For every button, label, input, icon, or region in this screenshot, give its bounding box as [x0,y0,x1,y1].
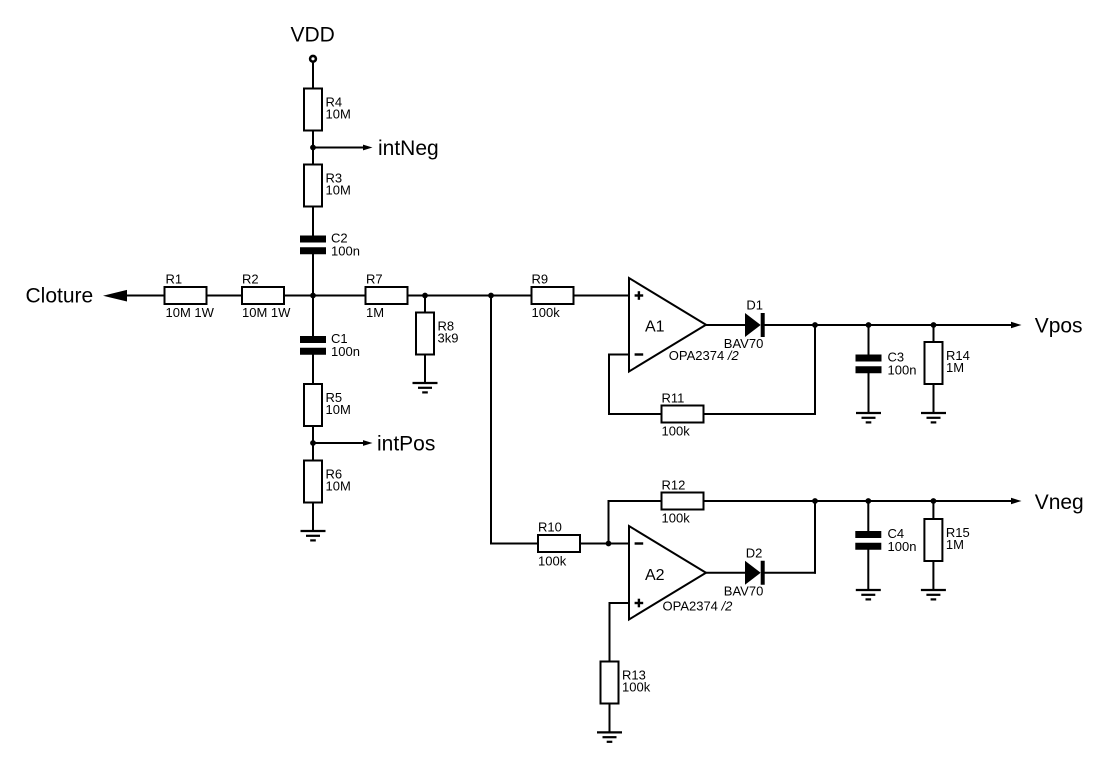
resistor R3 [304,165,351,207]
wire C1 to R5 [312,355,314,385]
svg-text:10M: 10M [326,402,351,417]
resistor R8 [416,313,458,355]
wire R10 to A2 minus [580,543,630,545]
svg-text:100k: 100k [662,510,691,525]
ground below C4 [856,590,881,599]
svg-text:10M 1W: 10M 1W [166,305,215,320]
resistor R9 [532,271,574,319]
resistor R10 [538,519,580,568]
svg-text:R12: R12 [662,477,686,492]
wire R4 to R3 [312,130,314,165]
svg-text:100n: 100n [331,344,360,359]
wire A2 plus stub [610,602,630,604]
op-amp U1 A1 [629,278,706,372]
resistor R12 [662,477,704,525]
junction node Vpos fb [812,322,818,328]
junction node R8 tap [422,293,428,299]
wire branch down to R10 [490,296,492,545]
wire C3 to ground [868,373,870,413]
wire Vneg to C4 [867,501,869,532]
wire R7 to R9 [408,295,533,297]
resistor R11 [662,390,704,438]
svg-text:10M 1W: 10M 1W [242,305,291,320]
wire R13 to ground [609,703,611,732]
svg-text:100k: 100k [622,680,651,695]
wire A2 minus up to R12 [608,500,610,545]
svg-text:BAV70: BAV70 [724,583,764,598]
svg-text:intNeg: intNeg [378,137,439,160]
svg-text:100n: 100n [888,362,917,377]
wire Vneg drop [814,501,816,574]
wire bus to C1 [312,296,314,337]
resistor R1 [165,271,215,319]
svg-text:A2: A2 [645,567,665,584]
ground below R13 [597,732,622,741]
wire VDD to R4 [312,63,314,89]
resistor R6 [304,461,351,503]
svg-text:100k: 100k [662,423,691,438]
svg-text:10M: 10M [326,107,351,122]
svg-text:R11: R11 [662,390,685,405]
wire fb to R11 [609,413,662,415]
wire Cloture to R1 [125,295,165,297]
resistor R15 [924,519,969,561]
svg-text:100n: 100n [888,539,917,554]
capacitor C1 [300,331,360,359]
wire A2 out to D2 [706,572,746,574]
ground below C3 [856,413,881,422]
ground below R6 [301,531,326,540]
resistor R14 [925,342,970,384]
wire R8 to ground [424,355,426,384]
wire to R12 [609,500,663,502]
wire intPos tap [313,442,365,444]
capacitor C2 [300,231,360,259]
wire node to R8 [424,296,426,314]
junction intNeg tap [310,145,316,151]
resistor R13 [601,662,651,704]
svg-text:R9: R9 [532,271,549,286]
wire R1 to R2 [207,295,243,297]
svg-text:R10: R10 [538,519,562,534]
wire intNeg tap [313,147,365,149]
svg-text:R7: R7 [366,271,383,286]
arrow Vneg [1011,498,1022,504]
svg-text:10M: 10M [326,479,351,494]
junction node A2 branch [488,293,494,299]
svg-text:OPA2374 /2: OPA2374 /2 [663,599,734,614]
op-amp U2 A2 [629,526,706,620]
wire R3 to C2 [312,207,314,237]
svg-text:1M: 1M [946,537,964,552]
svg-text:100n: 100n [331,243,360,258]
wire D1 to Vpos node [765,324,816,326]
wire R11 to fb right [704,413,817,415]
wire branch to R10 [490,543,539,545]
svg-text:R1: R1 [166,271,183,286]
resistor R7 [366,271,408,319]
junction node A2 minus [606,541,612,547]
svg-text:D1: D1 [746,297,763,312]
wire down to R13 [609,602,611,662]
svg-text:D2: D2 [746,545,763,560]
wire C4 to ground [867,550,869,591]
arrow intNeg [363,145,373,151]
resistor R2 [242,271,291,319]
diode D1 [724,297,765,351]
terminal VDD [310,56,316,62]
capacitor C4 [855,526,916,554]
junction node C4 tap [865,498,871,504]
capacitor C3 [856,350,917,378]
junction node Vneg fb [812,498,818,504]
wire A1 out to D1 [706,324,746,326]
ground below R15 [921,590,946,599]
wire R9 to A1 plus [574,295,630,297]
svg-text:A1: A1 [645,319,665,336]
diode D2 [724,545,765,598]
junction node C3 tap [866,322,872,328]
svg-text:R2: R2 [242,271,259,286]
wire fb down left [608,354,610,416]
wire R14 to ground [933,384,935,414]
junction node R14 tap [931,322,937,328]
svg-text:100k: 100k [538,553,567,568]
wire R2 to R7 [284,295,366,297]
svg-text:Vneg: Vneg [1035,491,1084,514]
wire R12 to Vneg node [704,500,817,502]
svg-text:Cloture: Cloture [26,284,94,307]
svg-text:intPos: intPos [377,433,435,456]
junction node center bus [310,293,316,299]
ground below R14 [921,413,946,422]
resistor R5 [304,384,351,426]
junction intPos tap [310,440,316,446]
wire Vpos line [815,324,1012,326]
arrow intPos [363,440,373,446]
resistor R4 [304,89,351,131]
wire Vpos to R14 [933,325,935,343]
svg-text:1M: 1M [946,360,964,375]
svg-text:100k: 100k [532,305,561,320]
wire R15 to ground [932,561,934,590]
ground below R8 [413,383,438,392]
wire R5 to R6 [312,426,314,461]
wire fb up right [814,325,816,415]
svg-text:1M: 1M [366,305,384,320]
svg-text:Vpos: Vpos [1035,314,1083,337]
wire Vpos to C3 [868,325,870,355]
svg-text:10M: 10M [326,183,351,198]
wire R6 to ground [312,502,314,531]
junction node R15 tap [931,498,937,504]
wire Vneg to R15 [932,501,934,520]
svg-text:BAV70: BAV70 [724,336,764,351]
arrow Vpos [1011,322,1022,328]
wire C2 to bus [312,254,314,296]
arrow Cloture [103,290,127,302]
wire Vneg line [815,500,1012,502]
wire D2 to Vneg drop [765,572,817,574]
svg-text:3k9: 3k9 [438,331,459,346]
svg-text:VDD: VDD [291,24,335,47]
wire A1 minus stub [609,354,629,356]
